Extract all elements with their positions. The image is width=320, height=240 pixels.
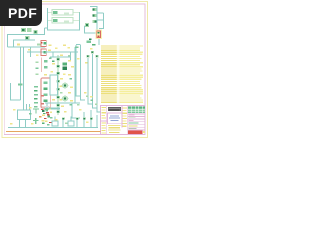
company logo bar (108, 107, 121, 111)
capacitor C7 (56, 88, 60, 91)
transistor Q3 (62, 96, 69, 102)
wire (25, 120, 27, 128)
wire (79, 12, 81, 30)
wire (27, 51, 44, 53)
wire (97, 19, 104, 21)
wire (90, 7, 97, 34)
wire (81, 45, 86, 100)
wire (11, 83, 21, 100)
wire (46, 103, 48, 108)
net list table (yellow text rows) (101, 45, 143, 102)
resistor R1 (34, 30, 38, 34)
diode D2 (92, 14, 96, 17)
wire (48, 8, 81, 30)
title block outline (101, 106, 145, 135)
drawing author box (blue text) (108, 113, 122, 123)
wire (70, 52, 72, 60)
wire (97, 58, 101, 112)
approval stamp (red box) (128, 130, 145, 134)
wire (76, 45, 80, 96)
wire (54, 117, 56, 122)
component chain net (57, 55, 59, 115)
revision entries (small marks) (129, 115, 139, 129)
title text lines under author box (yellow) (108, 125, 121, 133)
wire (96, 115, 98, 127)
capacitor C4 (56, 65, 60, 68)
capacitor C1 (21, 28, 26, 32)
capacitor C9 (56, 104, 60, 107)
relay K2 (48, 18, 80, 23)
right column row dividers (128, 114, 145, 130)
net label (34, 106, 37, 108)
capacitor C6 (56, 80, 60, 83)
middle column labels (yellow) (123, 108, 127, 127)
bus wire (45, 108, 60, 110)
net label (34, 90, 37, 92)
diode D3 (92, 20, 96, 23)
value labels scattered (48, 50, 71, 108)
wire (41, 58, 43, 73)
wire (76, 118, 78, 127)
connector J1 (18, 104, 31, 120)
capacitor C3 (56, 58, 60, 61)
pin marks (36, 62, 39, 76)
relay K1 (48, 10, 80, 15)
diode marks on wire bends (86, 96, 98, 105)
highlighted component X1 (95, 30, 102, 39)
wire (85, 25, 90, 27)
net label (34, 102, 38, 104)
switch S1 (52, 121, 58, 126)
diode D5 (91, 51, 94, 53)
revision table (green) (128, 106, 145, 112)
wire (50, 56, 70, 58)
wire (45, 102, 80, 104)
net label (18, 84, 23, 86)
ground bus wire (8, 126, 98, 128)
capacitor C10 (56, 111, 60, 114)
wire (20, 47, 22, 100)
wire (83, 112, 85, 127)
wire (52, 52, 54, 57)
diode D9 (83, 118, 86, 120)
wire (23, 47, 25, 110)
connector P1 (red outline) (41, 41, 47, 47)
cluster labels red/green (41, 42, 50, 110)
diode D4 (87, 55, 90, 57)
capacitor C5 (56, 72, 60, 75)
transistor Q2 (62, 83, 69, 89)
diode D8 (76, 118, 79, 120)
left column labels (yellow) (102, 107, 107, 134)
component cluster marks (39, 109, 52, 124)
wire (76, 44, 81, 46)
resistor R4 (44, 66, 48, 69)
wire (19, 120, 21, 128)
diode D6 (96, 55, 99, 57)
net label (75, 47, 79, 49)
IC U4 outline (50, 75, 58, 95)
wire (99, 13, 104, 29)
wire (97, 12, 104, 14)
transistor Q1 (85, 23, 89, 27)
transistor cluster Q4 (33, 108, 51, 121)
module U2 (red outline) (41, 78, 50, 108)
diode D1 (92, 8, 96, 11)
wire (98, 39, 100, 45)
IC U3 (62, 63, 67, 70)
wire (45, 27, 49, 29)
pin specks green (29, 55, 79, 125)
net label (34, 98, 37, 100)
resistor R2 (25, 36, 30, 40)
net label (34, 86, 38, 88)
node labels (87, 38, 96, 45)
wire (90, 110, 92, 127)
diode D10 (90, 118, 93, 120)
transistor cluster Q5 (33, 118, 38, 124)
capacitor C8 (56, 96, 60, 99)
wire (62, 118, 64, 127)
power rail wire (6, 131, 101, 133)
resistor R3 (44, 60, 48, 63)
wire (8, 28, 45, 47)
wire (14, 40, 36, 47)
capacitor C2 (27, 28, 31, 32)
wire (93, 54, 98, 108)
wire (74, 47, 76, 103)
diode D7 (62, 118, 65, 120)
wire (70, 117, 72, 122)
wire (85, 26, 98, 33)
connector P2 (red outline) (41, 49, 47, 56)
value label (37, 44, 40, 46)
wire (30, 47, 32, 57)
wire (8, 46, 46, 48)
sheet outer frame (2, 2, 148, 138)
wire (88, 58, 92, 104)
value label (17, 44, 20, 46)
switch S2 (68, 121, 74, 126)
sheet inner frame (4, 4, 145, 135)
wire (72, 103, 80, 118)
wire (45, 51, 78, 53)
net label (34, 94, 38, 96)
value labels scattered 2 (10, 45, 93, 125)
